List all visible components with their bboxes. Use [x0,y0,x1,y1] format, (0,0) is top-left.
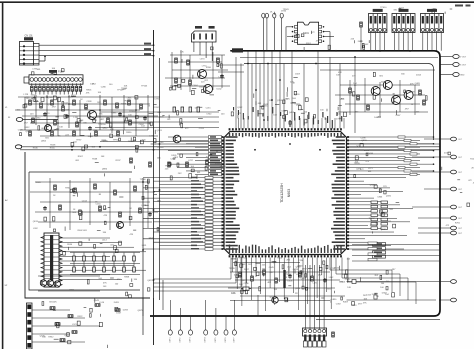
terminal B7 (bottom) [232,330,236,335]
resistor [85,104,88,109]
capacitor [288,274,292,279]
labels above bank [370,185,388,194]
resistor [175,78,178,83]
resistor [360,22,363,27]
svg-text:R858: R858 [124,277,130,279]
svg-text:Q469: Q469 [289,112,295,114]
svg-text:C953: C953 [199,128,205,130]
resistor [62,106,65,111]
svg-text:Q483: Q483 [415,83,421,85]
svg-text:47K: 47K [110,129,114,131]
svg-text:Q732: Q732 [92,120,98,122]
terminal label [205,338,207,343]
transistor Q401 [117,222,124,229]
transistor Q301 [371,87,380,96]
transistor Q103 [45,125,52,132]
wire net SCL [39,44,154,46]
svg-text:Q389: Q389 [409,92,415,94]
value labels bottom cluster [229,267,352,302]
left signal-processing cluster wires [15,95,160,136]
terminal (right) [451,226,457,230]
wire [43,91,45,94]
resistor R102 [39,86,42,91]
wire [440,217,451,219]
value labels bottom-left [40,300,108,348]
svg-text:C376: C376 [154,99,160,101]
connector CN1 (top-left) [20,42,40,66]
resistor [95,304,100,307]
terminal (right, V OUT) [453,55,459,59]
svg-text:D207: D207 [116,313,122,315]
wire net rail 3 [100,141,225,143]
svg-text:OUT4: OUT4 [205,338,207,343]
resistor [275,278,278,283]
capacitor C510 (tall) [283,270,285,288]
svg-text:10K: 10K [53,301,57,303]
wire [205,300,207,330]
svg-text:C154: C154 [96,203,102,205]
value labels mid-left [33,179,161,232]
svg-text:R128: R128 [121,104,127,106]
connector CN4 (bottom) [303,328,327,347]
page border left [2,2,4,349]
svg-text:TP338: TP338 [70,104,77,106]
svg-text:R934: R934 [67,244,73,246]
wire [63,91,65,94]
label CN202 [399,9,409,12]
transistor Q201 [198,70,207,79]
terminal (right) [451,205,457,209]
transistor Q610 [272,297,278,303]
net label block on box edge [232,48,243,52]
svg-text:R932: R932 [48,336,54,338]
svg-text:Q879: Q879 [138,310,144,312]
wire [281,18,283,51]
svg-text:10K: 10K [157,158,161,160]
transistor Q150 [173,135,181,143]
svg-text:CN 101: CN 101 [25,35,34,38]
transistor Q304 [404,91,413,100]
svg-text:D606: D606 [288,281,294,283]
svg-text:10K: 10K [337,114,341,116]
svg-text:D674: D674 [149,238,155,240]
wire fan to IC left pins [143,176,221,250]
wire [63,83,65,86]
label CN1 [24,35,33,41]
wire [79,83,81,86]
capacitor [220,74,224,79]
svg-text:R895: R895 [111,112,117,114]
svg-text:D187: D187 [244,269,250,271]
resistor [55,323,60,326]
wires from headers down [371,33,441,51]
labels above P101 [31,68,64,75]
terminal T1 (top) [262,13,265,18]
labels between cluster and IC [155,107,204,134]
svg-text:S OUT: S OUT [460,65,467,67]
svg-text:C608: C608 [199,87,205,89]
wire [440,64,453,66]
RGB wires to CRT [352,242,440,261]
svg-text:AC: AC [5,199,8,202]
svg-text:GND: GND [460,75,465,77]
terminal label [190,338,192,343]
vertical pin-name marks above IC [280,112,342,129]
capacitor [65,114,69,119]
wire [440,206,451,208]
terminal (right, GND) [453,73,459,77]
svg-text:R967: R967 [78,156,84,158]
terminal label [225,338,227,343]
wire [75,91,77,94]
pin labels below IC [231,257,351,274]
wire rail inside box top [240,57,438,59]
resistor R106 [55,86,58,91]
terminal label [179,338,181,343]
bus wire top segment [153,30,155,45]
wire rail under bottom cluster [230,300,330,302]
resistor [130,158,133,163]
resistor [251,276,254,281]
transistor Q502 [47,280,53,286]
resistor R100 [31,86,34,91]
wire rail inside box 2 [320,69,435,71]
terminal (right) [451,155,457,159]
resistor [149,162,152,167]
resistor bank labels [369,196,400,234]
terminal label [215,338,217,343]
wire x355 down [354,57,356,133]
wire [360,27,362,51]
value labels audio strip [76,156,208,177]
resistor [50,307,55,310]
wire [440,281,451,283]
wire [39,83,41,86]
wire IF out 2 [218,71,244,73]
terminal J1 [16,118,36,122]
capacitor [323,278,327,283]
value labels video cluster [336,72,427,119]
svg-text:TDA12025H: TDA12025H [280,183,284,203]
svg-text:10K: 10K [90,84,94,86]
terminal (right) [451,137,457,141]
wire [71,91,73,94]
svg-text:TP692: TP692 [369,218,376,220]
ladder rails [70,252,140,254]
terminal B6 (bottom) [224,330,228,335]
wires into CN4 [305,265,324,329]
resistor [186,162,189,167]
resistor [73,131,76,136]
mid-left cluster wires [30,178,158,230]
terminal B5 (bottom) [214,330,218,335]
terminal (right, S OUT) [453,63,459,67]
value labels IF cluster [170,47,224,95]
wire fan upper-left of IC [168,136,224,176]
svg-text:Q486: Q486 [64,335,70,337]
terminal T2 (top) [265,13,268,18]
svg-text:Q615: Q615 [147,280,153,282]
svg-text:C587: C587 [396,115,402,117]
terminal (right, lower) [451,280,457,284]
wire [67,83,69,86]
IC U1 TDA12025H (QFP body) [224,132,347,255]
svg-text:Q699: Q699 [301,278,307,280]
terminal label [169,338,171,343]
svg-text:Q774: Q774 [293,269,299,271]
bus wire x=153 [153,30,155,345]
resistor [29,100,32,105]
svg-text:C952: C952 [154,107,160,109]
capacitor [118,112,122,117]
svg-text:47K: 47K [104,215,108,217]
svg-text:D605: D605 [36,182,42,184]
svg-text:Q609: Q609 [370,185,376,187]
connector CN5 (IDC mid-left) [41,233,62,287]
wire IF out 1 [218,64,244,66]
resistor [59,205,62,210]
svg-text:10K: 10K [364,299,368,301]
transistor Q303 [392,96,401,105]
wire [440,171,451,173]
svg-text:C445: C445 [269,267,275,269]
label CN203 [427,9,437,12]
long wire net AUDIO [22,146,440,148]
resistor [95,131,98,136]
junction [71,146,73,148]
svg-text:D628: D628 [358,41,364,43]
wire [266,18,268,51]
wire from J1 [36,119,58,121]
capacitor [43,112,47,117]
wire [43,83,45,86]
svg-text:Q378: Q378 [356,168,362,170]
svg-text:TP944: TP944 [219,166,226,168]
capacitor [88,126,92,131]
svg-text:R558: R558 [50,144,56,146]
wire [215,308,217,330]
resistor [129,120,132,125]
resistor [54,185,57,190]
audio box inner [29,172,140,290]
value labels [31,95,84,102]
value labels U2 area [287,31,331,52]
svg-text:10K: 10K [59,127,63,129]
svg-text:D414: D414 [416,75,422,77]
wire [316,319,440,321]
terminal (right) [451,216,457,220]
svg-text:V OUT: V OUT [460,57,467,59]
wire [75,83,77,86]
svg-text:D528: D528 [68,97,74,99]
svg-text:C464: C464 [193,85,199,87]
resistor ladder row 1 [73,253,136,262]
svg-text:TP610: TP610 [380,7,387,9]
svg-text:Q589: Q589 [48,97,54,99]
terminal name labels [270,9,290,15]
resistor [51,100,54,105]
resistor [189,80,192,85]
resistor [140,104,143,109]
svg-text:R555: R555 [50,148,56,150]
connector CN202 [392,14,415,33]
wire [440,299,451,301]
header labels [380,7,452,14]
wire [55,91,57,94]
resistor [119,212,122,217]
resistor [72,331,77,334]
capacitor [43,206,47,211]
wire [440,156,451,158]
terminal J2 [15,145,21,149]
capacitor [143,116,147,121]
wire [51,83,53,86]
labels on bundle [287,73,308,118]
connector CN203 [421,14,444,33]
bundle labels [254,94,301,106]
bus wire x=143 [142,178,144,335]
resistor [134,186,137,191]
resistor [29,131,32,136]
svg-text:C866: C866 [377,197,383,199]
svg-text:C941: C941 [263,104,269,106]
svg-text:C392: C392 [336,303,342,305]
svg-text:C529: C529 [18,130,24,132]
wire fan from IC bottom pins [233,258,332,312]
resistor [128,100,131,105]
resistor R107 [59,86,62,91]
svg-text:Q724: Q724 [47,104,53,106]
resistor R108 [63,86,66,91]
resistor [423,100,426,105]
wire [59,83,61,86]
svg-text:Q790: Q790 [296,104,302,106]
terminal (right) [451,231,457,235]
connector CN201 [369,14,387,33]
wire net IR [39,55,154,57]
value labels bottom-right cluster [331,269,396,307]
svg-text:OUT7: OUT7 [233,338,235,343]
svg-text:OUT1: OUT1 [169,338,171,343]
resistor R105 [51,86,54,91]
resistor [206,160,209,165]
resistor [114,190,117,195]
wire [169,300,171,330]
page border top [0,1,474,3]
svg-text:Q543: Q543 [94,300,100,302]
resistor [349,88,352,93]
svg-text:10K: 10K [42,337,46,339]
svg-text:D283: D283 [123,309,129,311]
wire [35,91,37,94]
labels lower-mid-left [90,299,144,318]
wire [440,74,453,76]
transistor Q102 [88,111,97,120]
terminal B3 (bottom) [189,330,193,335]
svg-text:C198: C198 [361,137,367,139]
resistor [139,208,142,213]
resistor [54,120,57,125]
resistor [357,95,360,100]
resistor [51,131,54,136]
resistor [73,100,76,105]
resistor [104,100,107,105]
svg-text:Q805: Q805 [41,140,47,142]
wire [190,316,192,330]
wire [79,91,81,94]
resistor [311,276,314,281]
labels under left cluster [22,138,165,152]
transistor Q202 [204,85,213,94]
resistor [79,210,82,215]
bus wire x=159 [159,58,161,300]
svg-text:Q765: Q765 [277,100,283,102]
svg-text:C280: C280 [101,86,107,88]
resistor [187,60,190,65]
label CN3 left [195,26,202,29]
wire [35,83,37,86]
terminal label [233,338,235,343]
labels right of resistor row [86,84,148,95]
svg-text:C310: C310 [300,270,306,272]
svg-text:R568: R568 [92,158,98,160]
svg-text:10K: 10K [160,116,164,118]
resistor [68,315,73,318]
svg-text:OUT5: OUT5 [215,338,217,343]
resistor R112 [79,86,82,91]
shield box inner line [244,64,434,141]
svg-text:D304: D304 [382,293,388,295]
terminal T3 (top) [273,13,276,18]
resistor [332,332,335,337]
svg-text:10K: 10K [336,74,340,76]
video amp cluster wires [335,78,428,118]
svg-text:N603: N603 [287,189,291,198]
wire [39,91,41,94]
wire net SDA [39,50,154,52]
wire [440,56,453,58]
labels under ladder [70,277,154,298]
svg-text:R765: R765 [455,222,461,224]
svg-text:R330: R330 [206,67,212,69]
svg-text:R100: R100 [277,258,283,260]
terminal T4 (top) [280,13,283,18]
value labels IDC area [63,230,155,255]
wire [262,18,264,51]
wire [59,91,61,94]
resistor R110 [71,86,74,91]
svg-text:R246: R246 [287,274,293,276]
svg-text:Q399: Q399 [294,94,300,96]
drop wires to box bottom [257,295,259,316]
svg-text:47K: 47K [363,303,367,305]
svg-text:TP841: TP841 [283,9,290,11]
svg-text:R120: R120 [470,158,474,160]
svg-text:D493: D493 [114,302,120,304]
svg-text:R636: R636 [33,147,39,149]
bottom cluster wires [228,272,345,296]
svg-text:TP243: TP243 [141,86,148,88]
terminal (right, lowest) [451,298,457,302]
wire to lower right terminal [347,280,441,301]
svg-text:47K: 47K [433,9,437,11]
value labels left cluster [17,94,163,142]
pin labels right of IC [354,137,374,177]
resistor [107,118,110,123]
wire [225,316,227,330]
resistor [117,131,120,136]
wires from CN5 right [59,238,146,279]
